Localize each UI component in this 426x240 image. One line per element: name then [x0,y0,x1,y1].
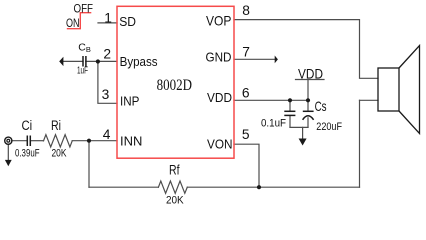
svg-text:Rf: Rf [169,162,180,177]
svg-text:Ri: Ri [51,118,61,133]
svg-text:Cs: Cs [315,98,327,114]
svg-text:6: 6 [242,85,250,100]
svg-text:Ci: Ci [22,118,33,133]
svg-text:8002D: 8002D [157,77,192,94]
svg-text:VDD: VDD [298,66,323,81]
svg-text:0.39uF: 0.39uF [15,148,40,160]
svg-text:VON: VON [207,136,233,151]
svg-text:ON: ON [66,16,80,30]
svg-text:1uF: 1uF [77,66,88,77]
svg-text:SD: SD [119,14,136,29]
svg-text:1: 1 [104,11,112,26]
svg-text:INP: INP [120,94,139,109]
svg-text:2: 2 [103,47,111,62]
svg-text:20K: 20K [52,148,68,160]
svg-text:VDD: VDD [207,90,232,105]
svg-text:VOP: VOP [206,13,231,29]
svg-text:8: 8 [242,3,250,18]
svg-text:7: 7 [242,45,250,60]
svg-text:0.1uF: 0.1uF [261,118,286,130]
svg-text:Bypass: Bypass [120,54,158,69]
svg-text:4: 4 [103,127,111,142]
svg-text:GND: GND [206,50,232,65]
svg-text:INN: INN [120,133,142,148]
svg-text:3: 3 [102,87,110,102]
svg-text:220uF: 220uF [316,121,342,133]
svg-text:20K: 20K [166,195,184,207]
svg-text:OFF: OFF [74,2,94,16]
svg-text:5: 5 [242,127,250,142]
